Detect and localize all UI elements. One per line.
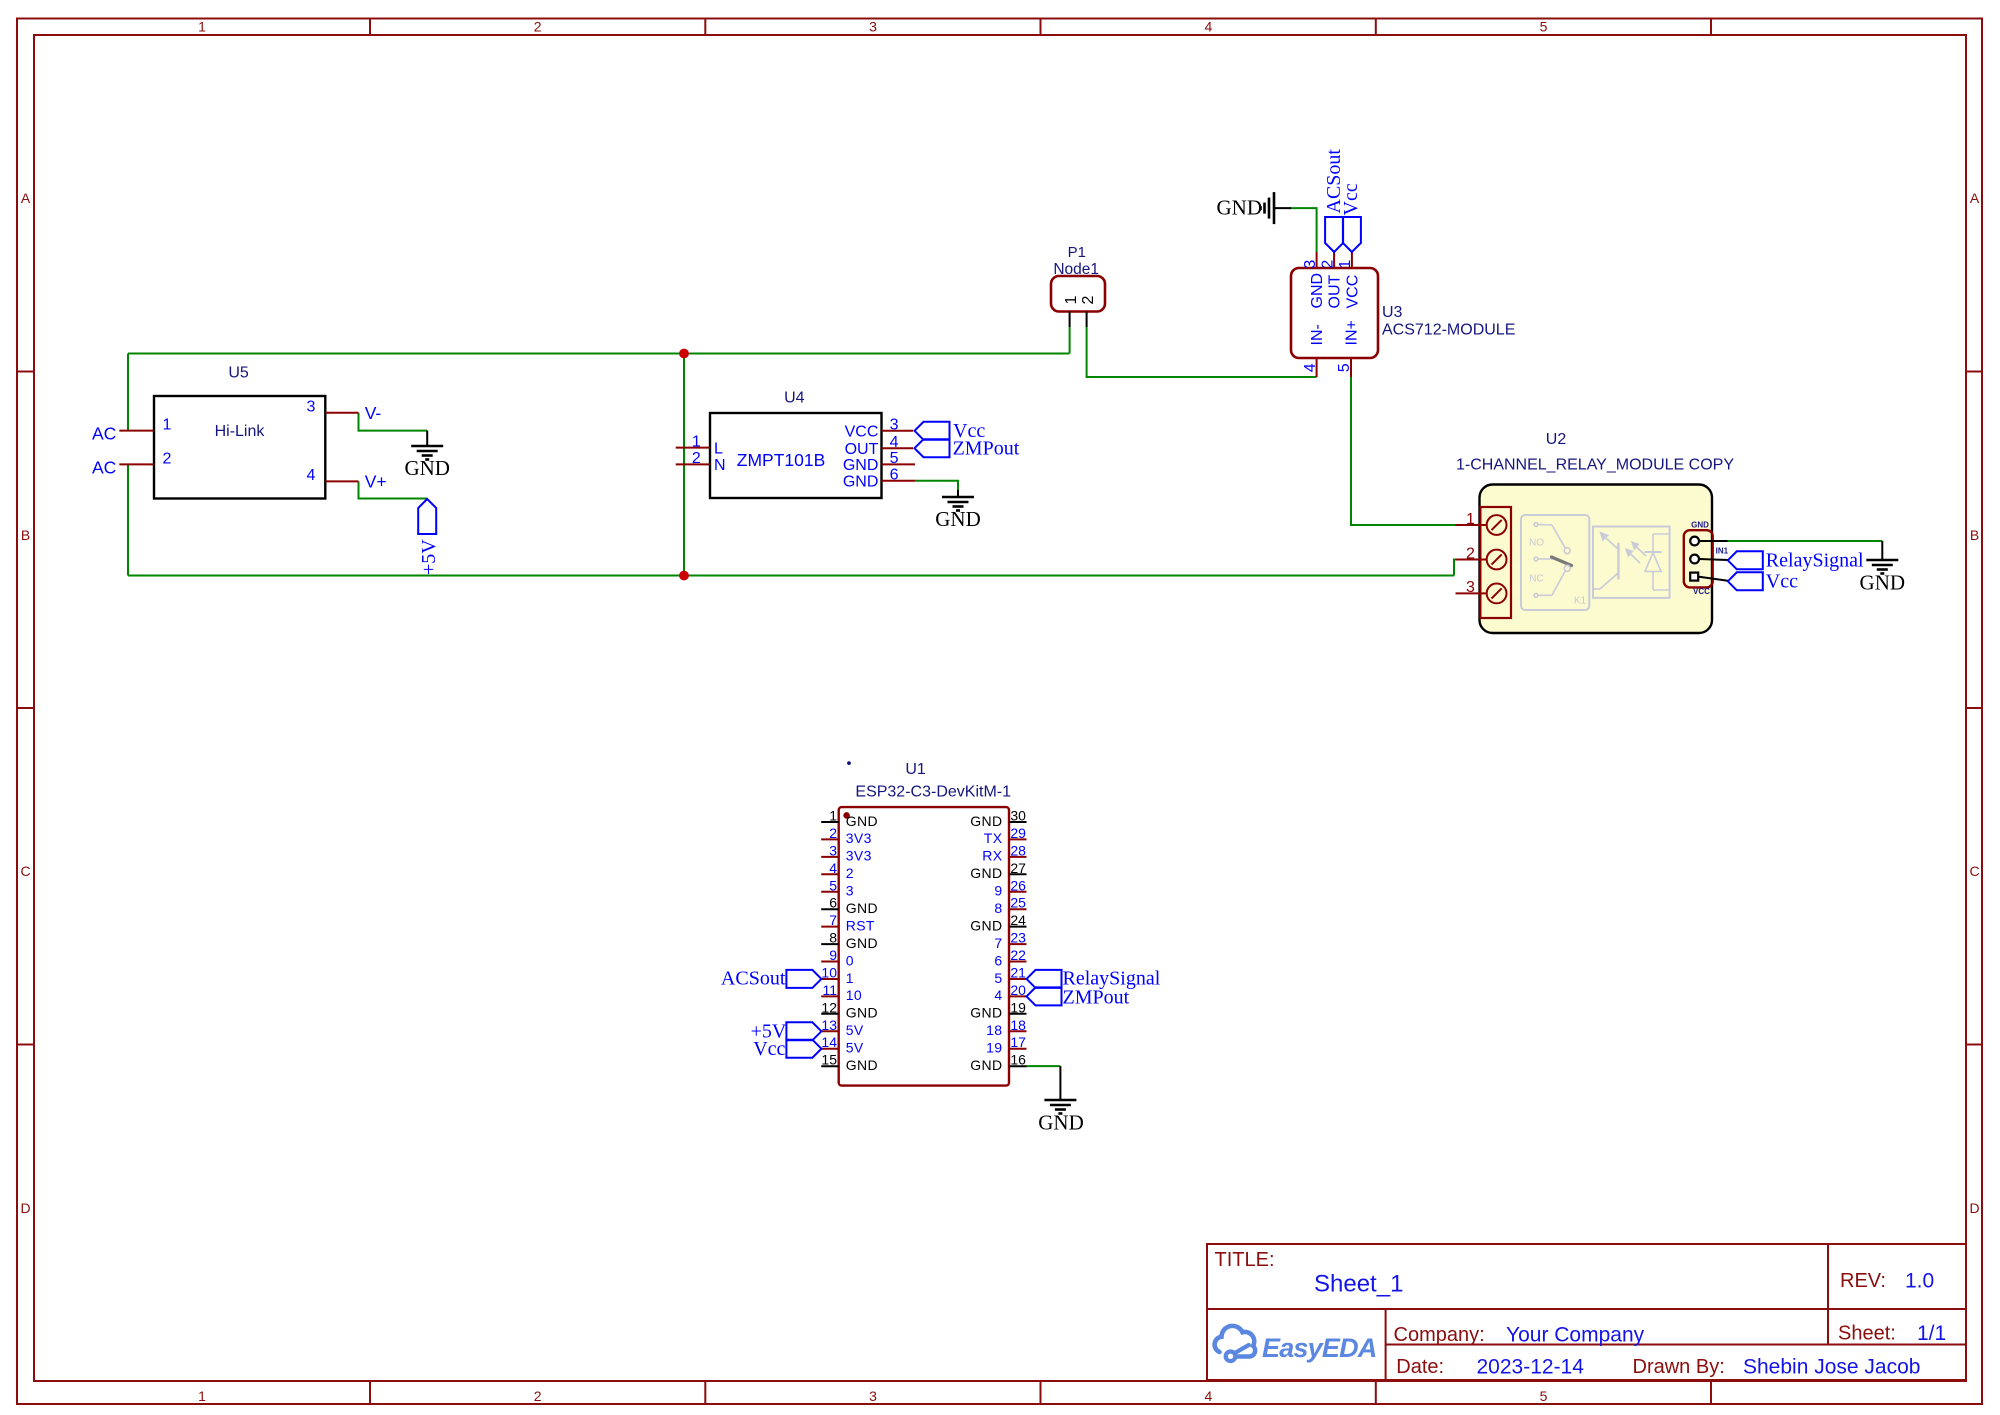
svg-text:17: 17 — [1010, 1034, 1026, 1050]
svg-text:1: 1 — [1337, 260, 1354, 269]
svg-text:IN1: IN1 — [1716, 547, 1729, 556]
svg-text:0: 0 — [846, 952, 854, 968]
svg-text:GND: GND — [935, 507, 981, 531]
svg-text:3V3: 3V3 — [846, 830, 872, 846]
svg-text:2: 2 — [163, 450, 172, 467]
svg-text:3: 3 — [869, 1388, 877, 1404]
svg-text:3: 3 — [846, 883, 854, 899]
svg-text:IN+: IN+ — [1344, 320, 1361, 345]
svg-text:V+: V+ — [365, 472, 387, 492]
svg-text:5V: 5V — [846, 1040, 864, 1056]
svg-text:A: A — [1970, 190, 1980, 206]
svg-text:23: 23 — [1010, 930, 1026, 946]
svg-text:5: 5 — [1540, 19, 1548, 35]
svg-text:GND: GND — [846, 813, 878, 829]
svg-text:29: 29 — [1010, 825, 1026, 841]
svg-text:1: 1 — [1466, 511, 1475, 528]
svg-text:D: D — [20, 1200, 30, 1216]
svg-text:11: 11 — [822, 982, 837, 998]
svg-text:NC: NC — [1529, 574, 1543, 585]
svg-text:VCC: VCC — [1344, 275, 1361, 309]
svg-text:Date:: Date: — [1396, 1356, 1444, 1378]
svg-text:B: B — [21, 527, 30, 543]
svg-text:2: 2 — [692, 450, 701, 467]
svg-text:Vcc: Vcc — [1766, 571, 1798, 593]
svg-text:8: 8 — [994, 900, 1002, 916]
svg-text:25: 25 — [1010, 895, 1026, 911]
svg-text:P1: P1 — [1068, 244, 1086, 261]
svg-text:5: 5 — [829, 877, 837, 893]
svg-text:3V3: 3V3 — [846, 848, 872, 864]
svg-text:9: 9 — [994, 883, 1002, 899]
svg-text:9: 9 — [829, 947, 837, 963]
svg-text:RelaySignal: RelaySignal — [1766, 550, 1864, 572]
svg-text:2: 2 — [846, 865, 854, 881]
svg-text:GND: GND — [970, 813, 1002, 829]
svg-text:GND: GND — [846, 935, 878, 951]
svg-text:V-: V- — [365, 403, 382, 423]
svg-text:6: 6 — [829, 895, 837, 911]
svg-text:OUT: OUT — [1327, 275, 1344, 309]
svg-text:19: 19 — [1010, 999, 1026, 1015]
svg-text:20: 20 — [1010, 982, 1026, 998]
svg-text:3: 3 — [307, 399, 316, 416]
svg-text:B: B — [1970, 527, 1979, 543]
svg-text:4: 4 — [1302, 363, 1319, 372]
svg-text:1: 1 — [1063, 296, 1080, 305]
svg-text:U4: U4 — [784, 390, 805, 407]
svg-text:18: 18 — [1010, 1017, 1026, 1033]
svg-text:Your Company: Your Company — [1506, 1323, 1645, 1346]
svg-text:GND: GND — [970, 917, 1002, 933]
svg-text:IN-: IN- — [1309, 324, 1326, 345]
svg-text:15: 15 — [821, 1052, 837, 1068]
svg-text:21: 21 — [1010, 965, 1026, 981]
svg-text:30: 30 — [1010, 808, 1026, 824]
svg-text:GND: GND — [970, 865, 1002, 881]
svg-text:4: 4 — [890, 434, 899, 451]
svg-text:Hi-Link: Hi-Link — [215, 423, 266, 440]
svg-text:VCC: VCC — [1693, 587, 1710, 596]
svg-text:GND: GND — [1860, 571, 1906, 595]
svg-text:3: 3 — [869, 19, 877, 35]
svg-text:5: 5 — [994, 970, 1002, 986]
svg-text:AC: AC — [92, 424, 116, 444]
svg-text:28: 28 — [1010, 842, 1026, 858]
svg-text:U5: U5 — [228, 365, 249, 382]
svg-text:ACS712-MODULE: ACS712-MODULE — [1382, 322, 1515, 339]
svg-text:TX: TX — [984, 830, 1003, 846]
svg-text:GND: GND — [1217, 196, 1263, 220]
svg-text:+5V: +5V — [418, 539, 440, 575]
svg-text:1: 1 — [163, 417, 172, 434]
svg-text:10: 10 — [821, 965, 837, 981]
svg-text:7: 7 — [994, 935, 1002, 951]
svg-text:1: 1 — [198, 19, 206, 35]
svg-text:GND: GND — [970, 1057, 1002, 1073]
svg-text:AC: AC — [92, 457, 116, 477]
svg-text:REV:: REV: — [1840, 1270, 1886, 1292]
svg-text:5V: 5V — [846, 1022, 864, 1038]
svg-text:Vcc: Vcc — [1340, 183, 1362, 215]
svg-text:Company:: Company: — [1394, 1324, 1485, 1346]
svg-text:27: 27 — [1010, 860, 1026, 876]
svg-text:1/1: 1/1 — [1917, 1322, 1946, 1345]
svg-text:7: 7 — [829, 912, 837, 928]
svg-text:8: 8 — [829, 930, 837, 946]
svg-text:10: 10 — [846, 987, 862, 1003]
svg-text:6: 6 — [890, 467, 899, 484]
svg-text:Node1: Node1 — [1053, 261, 1099, 278]
svg-text:1: 1 — [692, 433, 701, 450]
svg-text:5: 5 — [1336, 363, 1353, 372]
svg-text:3: 3 — [1302, 260, 1319, 269]
svg-text:ZMPout: ZMPout — [1063, 986, 1130, 1008]
svg-text:N: N — [714, 457, 726, 474]
svg-text:22: 22 — [1010, 947, 1026, 963]
svg-text:4: 4 — [829, 860, 837, 876]
svg-text:GND: GND — [843, 474, 879, 491]
svg-text:2: 2 — [1080, 296, 1097, 305]
svg-text:L: L — [714, 440, 723, 457]
svg-text:U2: U2 — [1546, 431, 1567, 448]
svg-text:12: 12 — [821, 999, 837, 1015]
svg-text:4: 4 — [1205, 19, 1213, 35]
svg-text:U1: U1 — [905, 761, 926, 778]
svg-text:Drawn By:: Drawn By: — [1633, 1356, 1725, 1378]
svg-text:3: 3 — [1466, 579, 1475, 596]
svg-text:6: 6 — [994, 952, 1002, 968]
svg-text:1: 1 — [829, 808, 837, 824]
svg-text:RX: RX — [982, 848, 1003, 864]
svg-text:RST: RST — [846, 917, 875, 933]
svg-text:5: 5 — [890, 450, 899, 467]
svg-text:EasyEDA: EasyEDA — [1262, 1333, 1376, 1363]
svg-text:C: C — [1969, 863, 1979, 879]
svg-text:3: 3 — [890, 417, 899, 434]
svg-text:GND: GND — [843, 457, 879, 474]
svg-text:1: 1 — [198, 1388, 206, 1404]
svg-text:Shebin Jose Jacob: Shebin Jose Jacob — [1743, 1355, 1920, 1378]
svg-text:19: 19 — [986, 1040, 1002, 1056]
svg-text:2: 2 — [1466, 545, 1475, 562]
svg-text:1-CHANNEL_RELAY_MODULE COPY: 1-CHANNEL_RELAY_MODULE COPY — [1456, 456, 1734, 473]
svg-text:GND: GND — [970, 1005, 1002, 1021]
svg-text:GND: GND — [1691, 520, 1709, 529]
svg-text:TITLE:: TITLE: — [1215, 1249, 1275, 1271]
svg-text:C: C — [20, 863, 30, 879]
svg-text:16: 16 — [1010, 1052, 1026, 1068]
svg-text:A: A — [21, 190, 31, 206]
svg-text:3: 3 — [829, 842, 837, 858]
svg-text:GND: GND — [1309, 273, 1326, 309]
svg-text:Sheet:: Sheet: — [1838, 1323, 1896, 1345]
svg-text:4: 4 — [307, 467, 316, 484]
svg-text:VCC: VCC — [845, 424, 879, 441]
svg-text:1: 1 — [846, 970, 854, 986]
svg-text:26: 26 — [1010, 877, 1026, 893]
svg-text:GND: GND — [846, 900, 878, 916]
svg-text:4: 4 — [994, 987, 1002, 1003]
svg-text:GND: GND — [846, 1057, 878, 1073]
svg-text:K1: K1 — [1574, 596, 1587, 607]
svg-text:Vcc: Vcc — [753, 1038, 785, 1060]
svg-text:ZMPT101B: ZMPT101B — [737, 450, 826, 470]
svg-text:14: 14 — [821, 1034, 837, 1050]
svg-text:OUT: OUT — [845, 441, 879, 458]
svg-text:2023-12-14: 2023-12-14 — [1477, 1355, 1585, 1378]
svg-text:D: D — [1969, 1200, 1979, 1216]
svg-text:GND: GND — [404, 456, 450, 480]
svg-text:ACSout: ACSout — [721, 967, 786, 989]
svg-text:2: 2 — [829, 825, 837, 841]
svg-text:13: 13 — [821, 1017, 837, 1033]
svg-text:ZMPout: ZMPout — [953, 438, 1020, 460]
svg-text:18: 18 — [986, 1022, 1002, 1038]
svg-text:1.0: 1.0 — [1905, 1270, 1934, 1293]
svg-text:2: 2 — [534, 1388, 542, 1404]
svg-text:2: 2 — [534, 19, 542, 35]
svg-text:5: 5 — [1540, 1388, 1548, 1404]
svg-text:Sheet_1: Sheet_1 — [1314, 1270, 1403, 1297]
svg-text:2: 2 — [1319, 260, 1336, 269]
svg-text:NO: NO — [1529, 538, 1544, 549]
svg-text:ESP32-C3-DevKitM-1: ESP32-C3-DevKitM-1 — [855, 783, 1011, 800]
svg-text:4: 4 — [1205, 1388, 1213, 1404]
svg-text:U3: U3 — [1382, 304, 1403, 321]
svg-text:24: 24 — [1010, 912, 1026, 928]
svg-text:GND: GND — [846, 1005, 878, 1021]
svg-text:GND: GND — [1038, 1111, 1084, 1135]
